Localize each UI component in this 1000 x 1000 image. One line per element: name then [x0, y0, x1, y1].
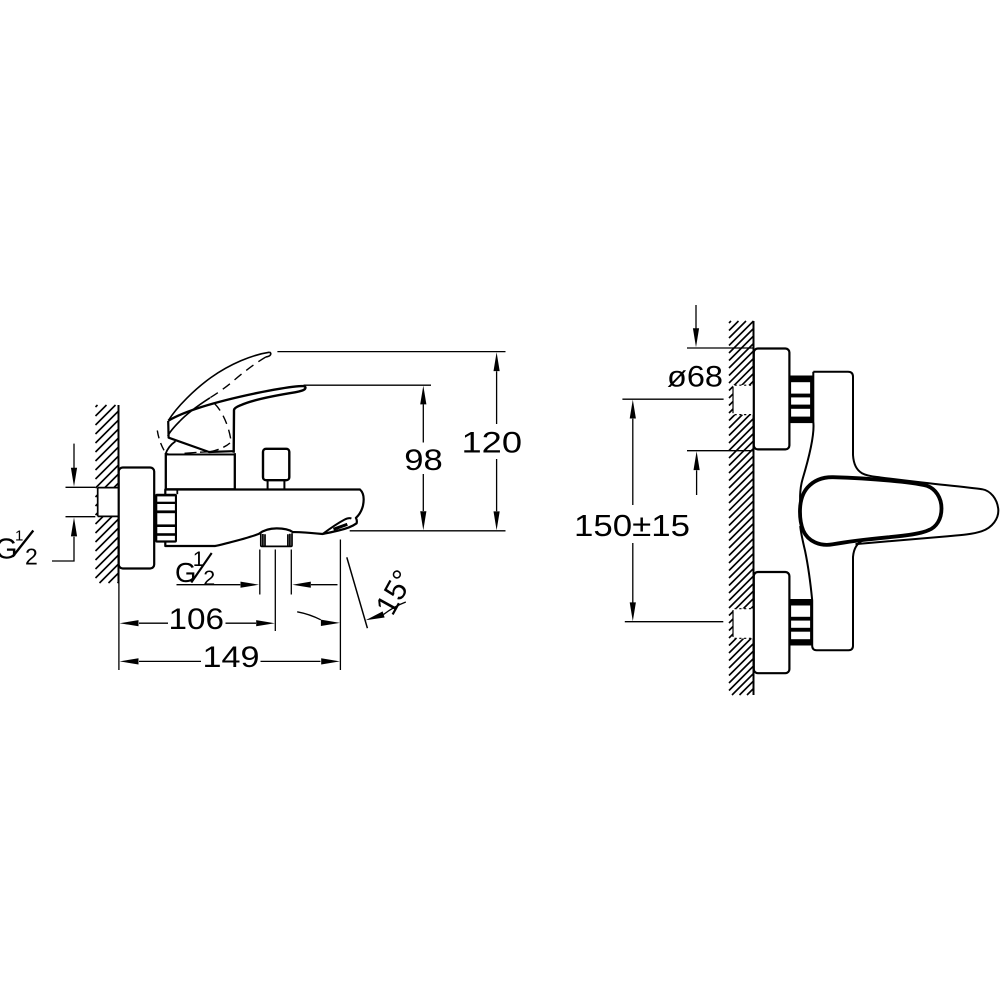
dimension 149: [120, 641, 340, 674]
knurled nut (left view): [155, 494, 177, 543]
15 degree reference line: [347, 557, 368, 628]
G1/2 extension lines (pipe): [66, 487, 96, 516]
handle swing arc (dashed): [157, 431, 166, 454]
lever handle open position (left view): [168, 352, 269, 421]
spout outlet extension line: [339, 540, 341, 671]
cartridge dome arc: [166, 441, 176, 454]
wall hatching right view: [729, 321, 754, 695]
dimension 98 extension line top: [304, 384, 432, 386]
open lever underside dashed: [210, 357, 266, 398]
valve body (left view): [165, 490, 363, 547]
aerator thread extension lines: [260, 550, 292, 595]
lever grip (right view, thick outline): [800, 477, 942, 545]
dimension 150±15: [574, 399, 724, 622]
diverter stem: [268, 480, 285, 489]
body upper-left waist (right view): [800, 372, 813, 503]
svg-text:150±15: 150±15: [574, 509, 690, 543]
upper knurled nut (right view): [790, 377, 812, 422]
wall face extension line (dims 106/149): [118, 569, 120, 670]
svg-text:ø68: ø68: [667, 361, 723, 394]
svg-text:106: 106: [169, 603, 225, 636]
lever handle closed position (left view): [168, 386, 305, 453]
supply pipe in wall (left view): [98, 488, 120, 517]
body slab top and outer lever outline (right view): [813, 372, 998, 544]
dimension 120: [462, 352, 523, 530]
G1/2 label (wall thread): [0, 528, 38, 570]
svg-text:15°: 15°: [370, 565, 421, 621]
lower knurled nut (right view): [790, 600, 812, 644]
15 degree arc with arrows: [297, 612, 321, 620]
spout outlet edge line: [323, 518, 352, 534]
svg-text:149: 149: [203, 641, 260, 674]
lower escutcheon (right view): [754, 572, 790, 673]
inlet boss edge behind nut: [176, 490, 178, 495]
dimension ø68 top arrow: [695, 305, 697, 329]
hidden lever bottom (dashed, inside wedge): [215, 404, 231, 440]
upper pipe socket in wall: [733, 385, 754, 415]
wall face line right view: [753, 321, 755, 695]
aerator centre extension line: [274, 550, 276, 632]
body lower-left waist (right view): [800, 526, 873, 650]
escutcheon bottom extension + up arrow: [687, 450, 753, 452]
svg-text:120: 120: [462, 426, 523, 459]
hidden dome edge dashes: [185, 452, 209, 453]
aerator with shower hose thread (left view): [261, 533, 292, 546]
spout outlet hidden edge (dashed): [334, 524, 348, 529]
handle wedge outline (left view): [168, 421, 232, 452]
G1/2 up arrow and leader: [52, 537, 74, 561]
diverter knob (left view): [263, 449, 289, 480]
svg-text:98: 98: [404, 444, 443, 477]
dimension 120 extension line top: [277, 351, 505, 353]
lower pipe socket in wall: [733, 609, 754, 639]
G1/2 down arrow: [73, 444, 75, 468]
svg-text:2: 2: [203, 566, 215, 590]
svg-text:1: 1: [15, 528, 23, 545]
cartridge collar (left view): [166, 454, 235, 489]
escutcheon top extension line: [687, 347, 754, 349]
dimension extension line bottom (spout outlet): [350, 530, 506, 532]
dimension 106: [120, 603, 275, 636]
dimension 98: [404, 386, 443, 531]
wall hatching left view: [96, 405, 119, 583]
upper escutcheon (right view): [754, 349, 790, 450]
wall escutcheon (left view): [119, 468, 155, 569]
G1/2 label (aerator) with leader arrows: [175, 548, 338, 590]
svg-text:2: 2: [25, 544, 38, 570]
wall face line left view: [118, 405, 120, 583]
